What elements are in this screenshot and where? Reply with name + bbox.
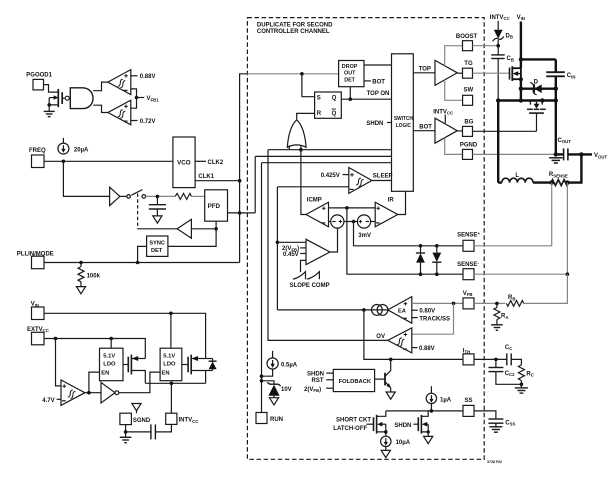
ground arrow (loop filter)	[153, 216, 162, 223]
wire TOP to driver	[413, 66, 435, 73]
svg-text:LOGIC: LOGIC	[396, 123, 411, 129]
wire sleep minus from ITH riser	[277, 186, 348, 188]
resistor 100k	[78, 263, 101, 287]
wire EA output	[372, 309, 388, 311]
inductor L	[498, 173, 551, 183]
svg-text:0.88V: 0.88V	[419, 346, 435, 352]
svg-text:RST: RST	[312, 378, 324, 384]
svg-text:SENSE+: SENSE+	[457, 231, 480, 239]
wire EA+ to VFB pin (gray)	[412, 302, 463, 304]
svg-text:SHDN: SHDN	[307, 371, 324, 377]
current source 0.5uA	[262, 351, 298, 376]
block FOLDBACK	[333, 369, 374, 391]
wire BOOST pin to DB node (gray)	[473, 45, 499, 47]
wire SGND down	[125, 425, 127, 437]
svg-text:INTVCC: INTVCC	[179, 418, 199, 424]
node VFB1 bracket	[131, 89, 137, 108]
wire VIN rail	[44, 313, 206, 358]
wire SYNC DET to PLLIN wire	[138, 246, 147, 262]
svg-text:D: D	[534, 79, 539, 85]
svg-text:VOUT: VOUT	[594, 153, 607, 159]
svg-text:FREQ: FREQ	[29, 148, 46, 154]
SLEEP label and wire	[372, 173, 393, 180]
svg-text:CSS: CSS	[505, 420, 515, 426]
svg-text:RUN: RUN	[270, 417, 283, 423]
sense tap + (gray)	[474, 183, 552, 246]
svg-text:DB: DB	[506, 33, 513, 39]
svg-text:4.7V: 4.7V	[42, 398, 54, 404]
pin PGOOD1	[26, 72, 52, 90]
wire switch to filter node	[146, 195, 176, 197]
wire EXTVCC to LDO1 top	[110, 339, 112, 349]
wire inverter A3 out to LDO2 EN	[119, 372, 160, 393]
driver G1 (top gate)	[435, 60, 457, 85]
ground (PGOOD1)	[44, 105, 55, 117]
comparator U2 (0.88V PGOOD comparator)	[108, 70, 131, 95]
ground arrow (10uA)	[381, 450, 390, 457]
svg-text:0.5µA: 0.5µA	[281, 363, 298, 369]
svg-text:INTVCC: INTVCC	[433, 109, 453, 115]
svg-text:RSENSE: RSENSE	[549, 172, 568, 178]
svg-text:SGND: SGND	[133, 418, 151, 424]
svg-text:BOT: BOT	[419, 124, 432, 130]
svg-text:FOLDBACK: FOLDBACK	[339, 379, 372, 385]
pin BOOST	[456, 34, 478, 51]
svg-text:CLK2: CLK2	[208, 160, 224, 166]
ground (CSS)	[489, 427, 502, 432]
wire driver to TG pin	[457, 72, 462, 74]
regulator block 5.1V LDO 2	[160, 348, 182, 381]
0.88V label (OV)	[412, 346, 435, 352]
svg-text:CLK1: CLK1	[198, 174, 214, 180]
wire to LDO1 EN	[89, 372, 100, 393]
rail PGND (gray)	[445, 138, 463, 155]
svg-text:5.1V: 5.1V	[163, 354, 175, 360]
svg-text:INTVCC: INTVCC	[490, 15, 510, 21]
wire EXTVCC rail	[44, 339, 145, 359]
svg-text:RC: RC	[526, 371, 533, 377]
capacitor COUT	[556, 138, 592, 161]
0.88V reference label	[131, 74, 156, 80]
wire BOT to driver	[413, 124, 435, 130]
current source 1uA	[426, 386, 452, 411]
capacitor CC	[505, 345, 522, 366]
svg-text:0.88V: 0.88V	[140, 74, 156, 80]
wire ICMP/IR tap to SENSE-	[347, 208, 463, 274]
pin EXTVCC	[27, 327, 49, 345]
capacitor CSS	[488, 419, 515, 427]
wire slope comp out to summer S1	[330, 228, 338, 252]
wire ICMP out to OR gate	[301, 150, 306, 215]
capacitor CC2	[488, 359, 523, 386]
PFD U5	[205, 190, 228, 221]
switch (PLL engage)	[120, 190, 146, 199]
block DROP OUT DET	[339, 61, 364, 87]
svg-text:10µA: 10µA	[396, 440, 411, 446]
capacitor CB	[491, 46, 514, 101]
svg-text:20µA: 20µA	[74, 147, 89, 153]
svg-text:S: S	[317, 96, 321, 102]
transistor Q5 (foldback NPN)	[375, 359, 391, 392]
wire VIN to LDO2 top	[170, 313, 172, 348]
resistor RA	[494, 303, 509, 324]
svg-text:0.72V: 0.72V	[140, 119, 156, 125]
wire SS pin to CSS	[474, 411, 496, 419]
svg-text:SHDN: SHDN	[366, 121, 383, 127]
SYNC DET block	[147, 236, 168, 256]
transistor Q3 (EXTVCC PMOS)	[123, 355, 145, 384]
wire EA out down to ITH	[364, 310, 463, 360]
amplifier slope comp	[277, 239, 330, 264]
riser PFD bus	[254, 156, 256, 213]
svg-text:DET: DET	[151, 248, 163, 254]
svg-text:CB: CB	[507, 56, 514, 62]
current source 10uA	[381, 436, 411, 450]
4.7V reference label	[42, 398, 61, 404]
svg-text:IR: IR	[388, 197, 395, 203]
wire ICMP+ to IR+	[329, 207, 376, 209]
svg-text:SYNC: SYNC	[149, 241, 165, 247]
pin PGND	[460, 143, 478, 160]
wire SS rail	[386, 410, 463, 412]
svg-text:ICMP: ICMP	[307, 197, 322, 203]
transistor M2 (bottom power NMOS)	[527, 101, 546, 132]
wire clock to latch/dropout (gray)	[247, 73, 339, 75]
svg-text:CIN: CIN	[567, 73, 576, 79]
wire PGND to output ground (gray)	[473, 153, 556, 155]
wire NAND input A from comparator U2 output	[93, 82, 108, 91]
wire Q to switch logic / TOP ON	[341, 98, 391, 100]
pin PLLIN/MODE	[17, 252, 54, 269]
wire NAND input B from comparator U3 output	[93, 105, 108, 112]
svg-text:BG: BG	[464, 120, 473, 126]
comparator SLEEP	[349, 168, 372, 194]
wire FREQ to VCO	[44, 160, 173, 162]
wire EXTVCC to comparator	[56, 339, 62, 386]
wire OV out to bus riser	[268, 339, 388, 341]
SHORT CKT LATCH-OFF label	[333, 418, 373, 432]
pin RUN	[256, 413, 283, 424]
0.80V / TRACK/SS labels	[412, 309, 450, 323]
svg-text:BOOST: BOOST	[456, 34, 478, 40]
svg-text:EN: EN	[162, 371, 170, 377]
svg-text:COUT: COUT	[558, 138, 572, 144]
svg-text:SHORT CKT: SHORT CKT	[336, 418, 371, 424]
svg-text:PGOOD1: PGOOD1	[26, 72, 52, 78]
pin SS	[463, 398, 474, 416]
svg-text:PGND: PGND	[460, 143, 478, 149]
SW bus	[498, 99, 556, 101]
svg-text:CC2: CC2	[505, 371, 515, 377]
FOLDBACK input labels	[304, 371, 333, 393]
wire PFD right to bus riser	[228, 212, 256, 214]
resistor (loop filter)	[175, 193, 191, 199]
svg-text:10V: 10V	[281, 387, 292, 393]
driver G2 (bottom gate)	[435, 118, 457, 143]
pin TG	[463, 61, 473, 78]
wire PLLIN/MODE	[44, 262, 240, 264]
divider tap to RB (gray)	[524, 274, 568, 303]
wire IR out to switch logic	[398, 191, 406, 214]
pin VFB	[463, 291, 474, 309]
SHDN stub	[366, 121, 391, 127]
resistor RC	[518, 365, 533, 384]
svg-text:0.80V: 0.80V	[419, 309, 435, 315]
transistor Q6 (latch-off NMOS)	[374, 411, 388, 436]
pin VIN	[31, 302, 44, 320]
buffer A1	[110, 187, 120, 205]
svg-text:SS: SS	[465, 398, 473, 404]
comparator OV	[376, 328, 412, 353]
pin INTVCC	[166, 413, 199, 424]
svg-text:0.425V: 0.425V	[321, 173, 340, 179]
ground arrow (foldback)	[386, 392, 395, 399]
wire VFB pin to divider (gray)	[474, 302, 505, 304]
inverter A2 (left pointing)	[177, 219, 191, 238]
svg-text:TG: TG	[464, 61, 473, 67]
ground (COUT)	[549, 158, 562, 163]
bus PFD to switch logic	[255, 155, 391, 157]
comparator U3 (0.72V PGOOD comparator)	[108, 100, 131, 125]
wire comparator out	[85, 392, 101, 394]
svg-text:SENSE-: SENSE-	[457, 260, 479, 268]
pin BG	[463, 120, 474, 137]
ground bus right	[555, 76, 557, 154]
rail SW (gray)	[445, 80, 463, 100]
svg-text:SHDN: SHDN	[394, 423, 411, 429]
svg-text:CC: CC	[505, 345, 512, 351]
transistor Q7 (SHDN NMOS)	[418, 411, 430, 437]
diode DB	[493, 21, 513, 46]
OR input stubs	[288, 145, 290, 149]
svg-text:VFB: VFB	[463, 291, 473, 297]
VIN bus	[520, 22, 522, 69]
diode D (freewheel)	[519, 79, 558, 94]
comparator U6 (4.7V EXTVCC)	[61, 380, 85, 405]
svg-text:1µA: 1µA	[440, 397, 452, 403]
SGND arrow	[132, 404, 141, 411]
riser OV bus	[267, 150, 269, 341]
svg-text:PFD: PFD	[208, 203, 221, 210]
resistor RB	[506, 295, 523, 306]
transistor M1 (top power NMOS)	[510, 66, 523, 81]
svg-text:SLEEP: SLEEP	[373, 173, 393, 179]
pin SENSE+	[457, 231, 480, 251]
INTVCC label (driver)	[433, 109, 453, 123]
diode D2 (sense clamp up)	[416, 244, 425, 276]
capacitor (loop filter)	[149, 196, 166, 216]
svg-text:DUPLICATE FOR SECOND: DUPLICATE FOR SECOND	[257, 23, 333, 29]
pin SGND	[120, 413, 151, 424]
0.72V reference label	[131, 119, 156, 125]
pin FREQ	[29, 148, 46, 168]
block SWITCH LOGIC	[392, 54, 414, 192]
svg-text:SW: SW	[464, 87, 474, 93]
BOT stub label	[364, 79, 385, 85]
wire VFB node to OV+ (gray)	[412, 303, 454, 334]
pin SW	[463, 87, 474, 105]
wire inverter A2 out	[191, 228, 216, 230]
wire dropout det bottom to Q wire	[349, 87, 351, 100]
svg-text:RB: RB	[508, 295, 515, 301]
transistor Q4 (VIN PMOS)	[182, 355, 206, 384]
svg-text:DROP: DROP	[342, 64, 358, 70]
SW down to inductor	[497, 101, 499, 183]
summer S1	[329, 215, 344, 228]
resistor RSENSE	[549, 154, 582, 185]
ground (compensation)	[515, 384, 528, 393]
svg-text:5.1V: 5.1V	[103, 354, 115, 360]
vertical clock/sync riser	[240, 74, 247, 263]
bus RUN to switch logic	[262, 162, 392, 164]
wire summer tap to SENSE+	[354, 222, 464, 246]
CLK2 stub	[195, 160, 224, 166]
svg-text:OUT: OUT	[344, 71, 356, 77]
pin ITH	[463, 348, 474, 365]
svg-text:TRACK/SS: TRACK/SS	[419, 316, 450, 322]
wire S input	[302, 74, 315, 97]
riser ITH/sleep	[276, 187, 278, 310]
svg-text:R: R	[317, 111, 322, 117]
dashed linkage	[137, 194, 139, 229]
svg-text:OV: OV	[376, 334, 385, 340]
wire PGOOD1 to Q1 drain	[44, 85, 59, 93]
bus OV to switch logic	[268, 149, 392, 151]
svg-text:100k: 100k	[87, 273, 101, 279]
rail BOOST (gray)	[445, 46, 463, 67]
svg-text:EA: EA	[398, 309, 407, 315]
latch SR	[315, 92, 342, 118]
body diode of Q4	[206, 359, 217, 371]
gm symbol (double circle)	[372, 305, 388, 316]
wire dropout to switch logic	[364, 64, 392, 66]
svg-text:LATCH-OFF: LATCH-OFF	[333, 426, 367, 432]
diode D3 (sense clamp down)	[432, 244, 441, 276]
svg-text:EN: EN	[101, 371, 109, 377]
regulator block 5.1V LDO 1	[100, 348, 124, 381]
svg-text:SWITCH: SWITCH	[394, 116, 413, 122]
comparator IR	[375, 197, 398, 227]
bypass capacitor (INTVCC)	[126, 424, 172, 439]
NAND gate (PGOOD)	[62, 88, 93, 109]
wire TG to top FET gate (gray)	[473, 72, 510, 74]
svg-text:SLOPE COMP: SLOPE COMP	[290, 283, 330, 289]
dashed channel box	[247, 18, 484, 460]
comparator ICMP	[306, 197, 329, 227]
OR gate	[287, 120, 306, 148]
zener 10V	[262, 381, 292, 398]
RUN riser	[261, 163, 263, 413]
capacitor CIN	[546, 59, 575, 79]
svg-text:Q: Q	[332, 111, 337, 117]
current source 20uA	[58, 138, 89, 154]
svg-text:L: L	[515, 173, 519, 179]
svg-text:Q: Q	[332, 96, 337, 102]
ground (SGND)	[120, 437, 132, 442]
svg-text:VFB1: VFB1	[147, 96, 160, 102]
inverter A3	[101, 382, 119, 403]
wire LDO outputs to INTVCC node	[145, 382, 205, 384]
0.425V label	[321, 173, 349, 179]
wire ITH pin to compensation	[474, 358, 507, 360]
ground arrow (zener)	[269, 398, 278, 405]
sense tap - (gray)	[474, 183, 567, 275]
svg-text:CONTROLLER CHANNEL: CONTROLLER CHANNEL	[257, 29, 330, 35]
svg-text:0.45V: 0.45V	[283, 252, 299, 258]
svg-text:LDO: LDO	[103, 362, 116, 368]
svg-text:3728 F02: 3728 F02	[487, 460, 502, 464]
wire FREQ node down to buffer	[63, 161, 109, 196]
ground arrow (100k)	[76, 287, 85, 294]
summer S2 (3mV offset)	[344, 215, 375, 239]
wire A2 feedback to switch linkage	[138, 228, 178, 230]
wire BG to bottom FET gate	[473, 130, 537, 132]
amplifier EA	[388, 297, 412, 324]
VCO U4	[173, 137, 195, 188]
svg-text:TOP: TOP	[419, 66, 431, 72]
svg-text:2(VFB): 2(VFB)	[304, 387, 321, 393]
transistor Q1 (PGOOD pull-down NMOS)	[47, 89, 62, 107]
ground arrow (Q7)	[424, 436, 433, 443]
pin SENSE-	[457, 260, 479, 279]
sawtooth symbol	[290, 260, 330, 289]
ground (RA)	[491, 325, 503, 330]
svg-text:3mV: 3mV	[358, 233, 371, 239]
SHDN label (Q7)	[394, 423, 418, 429]
wire CLK1	[195, 180, 240, 182]
svg-text:BOT: BOT	[372, 79, 385, 85]
svg-text:VCO: VCO	[177, 159, 191, 166]
wire driver to BG pin	[457, 130, 462, 132]
svg-text:DET: DET	[344, 77, 355, 83]
svg-text:TOP ON: TOP ON	[367, 91, 390, 97]
svg-text:RA: RA	[501, 314, 508, 320]
wire R input from OR gate	[297, 113, 315, 119]
svg-text:VIN: VIN	[517, 15, 525, 21]
svg-text:LDO: LDO	[163, 362, 176, 368]
